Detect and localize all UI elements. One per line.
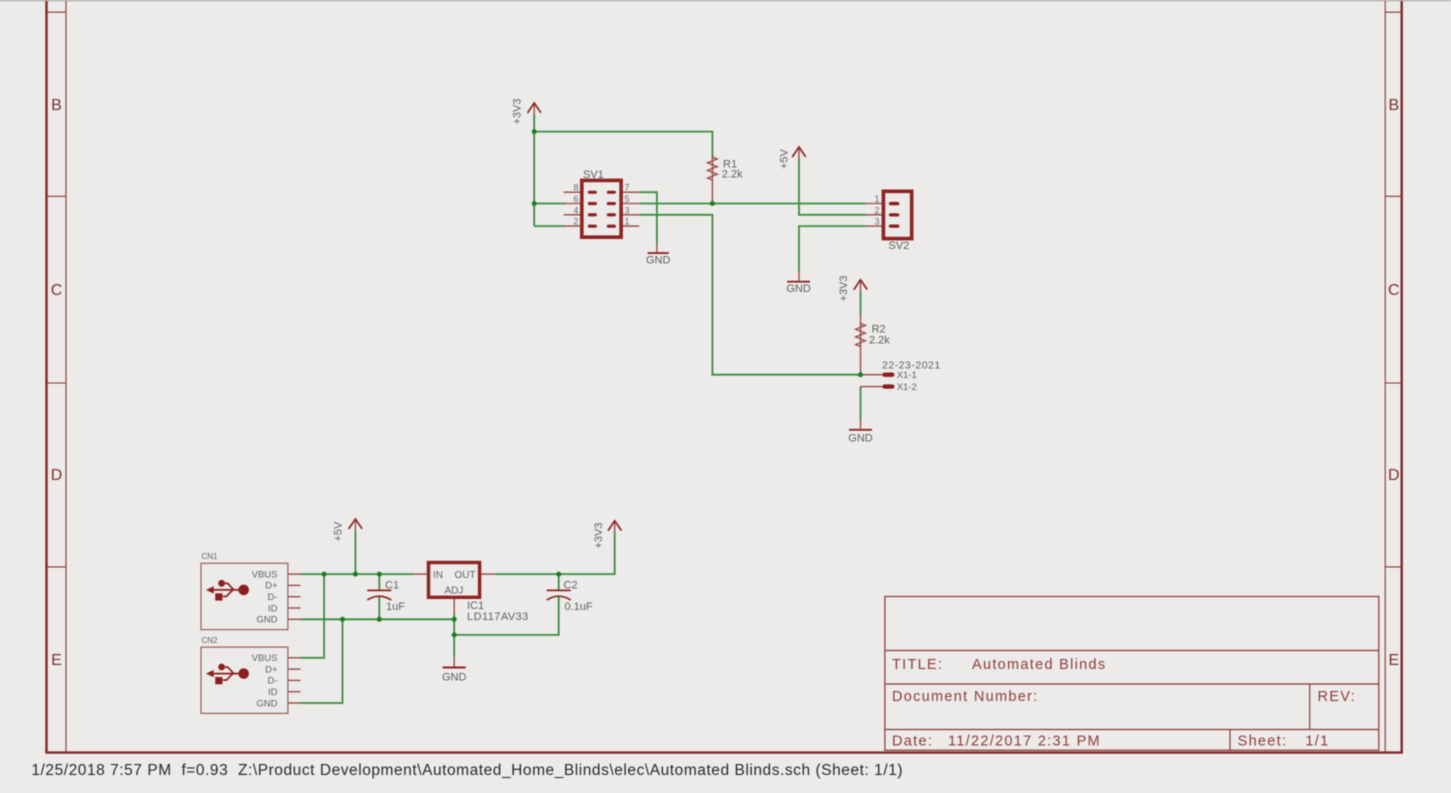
- svg-text:ID: ID: [268, 687, 278, 698]
- svg-text:X1-1: X1-1: [897, 370, 917, 381]
- svg-text:11/22/2017 2:31 PM: 11/22/2017 2:31 PM: [948, 734, 1101, 750]
- svg-text:+3V3: +3V3: [838, 276, 850, 302]
- svg-text:D: D: [1388, 467, 1400, 484]
- svg-text:GND: GND: [256, 615, 277, 626]
- svg-text:Document Number:: Document Number:: [892, 689, 1039, 705]
- svg-text:REV:: REV:: [1318, 689, 1357, 705]
- svg-text:1/25/2018 7:57 PM f=0.93 Z:\: 1/25/2018 7:57 PM f=0.93 Z:\Product Deve…: [31, 762, 903, 779]
- svg-text:VBUS: VBUS: [252, 653, 278, 664]
- svg-text:+5V: +5V: [333, 521, 345, 542]
- svg-text:+3V3: +3V3: [512, 99, 524, 125]
- svg-text:+5V: +5V: [778, 148, 790, 169]
- svg-text:8: 8: [573, 183, 578, 193]
- svg-text:E: E: [1388, 652, 1399, 669]
- svg-text:B: B: [1388, 97, 1399, 114]
- svg-text:D: D: [51, 467, 63, 484]
- svg-text:+3V3: +3V3: [593, 523, 605, 549]
- svg-text:2.2k: 2.2k: [722, 169, 743, 181]
- svg-text:E: E: [51, 652, 62, 669]
- svg-text:ID: ID: [268, 603, 278, 614]
- svg-text:1: 1: [625, 217, 630, 227]
- svg-text:GND: GND: [256, 698, 277, 709]
- svg-text:Date:: Date:: [892, 734, 933, 750]
- svg-text:Automated Blinds: Automated Blinds: [972, 657, 1106, 673]
- svg-text:C2: C2: [564, 580, 578, 592]
- svg-text:2: 2: [573, 217, 578, 227]
- svg-text:GND: GND: [646, 255, 671, 267]
- svg-text:CN1: CN1: [202, 552, 219, 561]
- svg-text:7: 7: [625, 183, 630, 193]
- svg-text:6: 6: [573, 194, 578, 204]
- svg-text:Sheet:: Sheet:: [1238, 734, 1288, 750]
- svg-text:SV1: SV1: [583, 169, 604, 181]
- svg-text:1uF: 1uF: [386, 601, 405, 613]
- svg-text:TITLE:: TITLE:: [892, 657, 943, 673]
- svg-text:1: 1: [874, 194, 879, 204]
- svg-text:2.2k: 2.2k: [869, 335, 890, 347]
- svg-text:GND: GND: [442, 671, 467, 683]
- svg-text:0.1uF: 0.1uF: [565, 601, 593, 613]
- svg-text:LD117AV33: LD117AV33: [467, 611, 529, 623]
- svg-text:C1: C1: [385, 580, 399, 592]
- svg-text:CN2: CN2: [202, 636, 219, 645]
- svg-text:C: C: [1388, 282, 1400, 299]
- svg-text:3: 3: [625, 205, 630, 215]
- svg-text:GND: GND: [848, 433, 873, 445]
- svg-text:5: 5: [625, 194, 630, 204]
- svg-text:C: C: [51, 282, 63, 299]
- svg-text:VBUS: VBUS: [252, 569, 278, 580]
- svg-text:4: 4: [573, 205, 578, 215]
- svg-text:SV2: SV2: [889, 240, 910, 252]
- svg-text:D+: D+: [265, 581, 278, 592]
- svg-text:IN: IN: [433, 570, 443, 581]
- svg-text:D-: D-: [267, 592, 277, 603]
- svg-text:D-: D-: [267, 676, 277, 687]
- svg-text:GND: GND: [786, 283, 811, 295]
- svg-text:3: 3: [874, 217, 879, 227]
- svg-text:1/1: 1/1: [1305, 734, 1329, 750]
- svg-text:D+: D+: [265, 664, 278, 675]
- svg-text:OUT: OUT: [455, 570, 476, 581]
- svg-text:2: 2: [874, 205, 879, 215]
- svg-text:ADJ: ADJ: [445, 586, 464, 597]
- svg-text:B: B: [51, 97, 62, 114]
- svg-text:X1-2: X1-2: [897, 382, 917, 393]
